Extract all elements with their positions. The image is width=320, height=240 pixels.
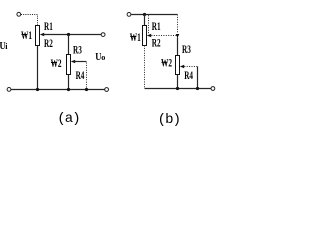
wire bottom rail (a) — [11, 89, 105, 91]
terminal top-right (a) — [101, 33, 105, 37]
node rail/W1 (b) — [143, 13, 146, 16]
potentiometer W2 body (b) — [176, 56, 180, 75]
terminal bottom-left (a) — [7, 88, 11, 92]
wire top rail (b) — [131, 14, 177, 16]
wire down to W1 (b) — [144, 15, 146, 26]
wiper arrow W1 (b) — [147, 34, 151, 38]
node rail/W2 (b) — [176, 87, 179, 90]
wire branch down to W2 (b) — [177, 38, 179, 56]
wire wiper to output (a) — [44, 34, 102, 36]
svg-text:W1: W1 — [130, 32, 141, 44]
svg-text:W2: W2 — [51, 58, 62, 70]
svg-text:R3: R3 — [182, 44, 191, 56]
wire wiper W2 (a) — [75, 61, 87, 63]
svg-text:(b): (b) — [158, 112, 181, 128]
svg-text:R2: R2 — [44, 38, 53, 50]
potentiometer W2 body (a) — [67, 55, 71, 75]
svg-text:R1: R1 — [152, 21, 161, 33]
wire bottom rail (b) — [145, 88, 212, 90]
wire dotted below W1 to rail (b) — [144, 46, 146, 89]
node rail/W2 (a) — [67, 88, 70, 91]
wiper arrow W2 (a) — [71, 60, 75, 64]
svg-text:R2: R2 — [152, 37, 161, 49]
wire dotted wiper W2 (b) — [184, 66, 197, 68]
wire dotted rail-to-wiper (b) — [148, 15, 150, 34]
arrow down onto branch (b) — [176, 34, 180, 38]
wire dotted drop from rail corner (b) — [177, 15, 179, 34]
svg-text:R4: R4 — [184, 70, 193, 82]
wire dotted input top (a) — [21, 15, 38, 26]
wire below W1 (a) — [37, 46, 39, 91]
wiper arrow W2 (b) — [180, 65, 184, 69]
terminal bottom-right (b) — [211, 87, 215, 91]
svg-text:R4: R4 — [76, 70, 85, 82]
wire below W2 (b) — [177, 75, 179, 90]
node rail/W1 (a) — [36, 88, 39, 91]
wire wiper drop to rail (b) — [197, 67, 199, 90]
terminal top-left (a) — [17, 12, 21, 16]
svg-text:R1: R1 — [44, 21, 53, 33]
potentiometer W1 body (a) — [36, 26, 40, 46]
potentiometer W1 body (b) — [143, 26, 147, 46]
svg-text:W1: W1 — [21, 30, 32, 42]
node junction wiper/branch (a) — [67, 33, 70, 36]
terminal top-left (b) — [127, 13, 131, 17]
wire dotted wiper to branch (b) — [151, 35, 177, 37]
terminal bottom-right (a) — [105, 88, 109, 92]
svg-text:R3: R3 — [73, 44, 82, 56]
svg-text:W2: W2 — [161, 58, 172, 70]
svg-text:(a): (a) — [57, 111, 80, 127]
svg-text:o: o — [101, 53, 105, 62]
wire below W2 (a) — [68, 75, 70, 91]
wiper arrow W1 (a) — [40, 33, 44, 37]
wire branch down to W2 (a) — [68, 35, 70, 55]
wire dotted wiper-to-rail (a) — [86, 63, 88, 89]
node rail/wiper (b) — [196, 87, 199, 90]
node rail/dotted (a) — [85, 88, 88, 91]
